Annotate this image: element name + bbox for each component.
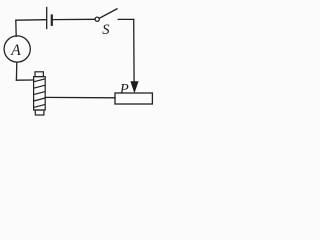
- coil winding turn 5: [34, 104, 46, 107]
- coil winding turn 4: [34, 98, 46, 101]
- battery short plate (-): [51, 16, 53, 25]
- wire left vertical (top-left corner to ammeter top): [15, 20, 17, 36]
- coil bottom cap: [35, 110, 44, 115]
- wire right vertical (down to rheostat slider): [133, 19, 135, 82]
- battery long plate (+): [46, 8, 48, 29]
- svg-text:P: P: [119, 81, 129, 97]
- coil winding turn 1: [34, 79, 46, 82]
- wire ammeter bottom vertical: [15, 62, 17, 80]
- wire battery to switch: [53, 18, 95, 20]
- ammeter A circle: [4, 36, 30, 62]
- svg-text:A: A: [10, 42, 21, 59]
- wire switch fixed contact to top-right corner: [118, 18, 134, 20]
- coil L (spool with winding): [34, 72, 46, 115]
- coil winding turn 3: [34, 92, 46, 95]
- svg-text:S: S: [102, 22, 110, 38]
- coil top cap: [35, 72, 43, 77]
- rheostat P body rectangle: [115, 93, 152, 104]
- wire bottom (rheostat to coil): [45, 96, 115, 98]
- switch S blade (open): [99, 9, 117, 18]
- coil body: [34, 77, 46, 110]
- wire coil to ammeter (horizontal): [16, 79, 33, 81]
- wire top-left horizontal (corner to battery): [16, 19, 46, 22]
- rheostat slider arrowhead: [130, 81, 138, 93]
- coil winding turn 2: [34, 85, 46, 88]
- switch S pivot circle: [95, 17, 99, 21]
